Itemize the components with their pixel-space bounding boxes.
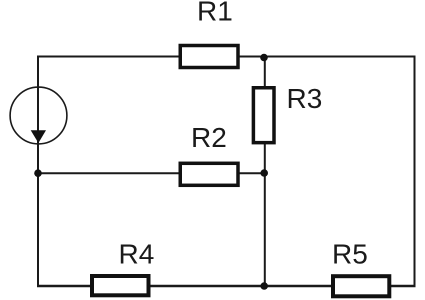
wire top: node A rail <box>37 56 416 58</box>
wire right: top rail to bottom rail <box>414 56 416 288</box>
junction node: bottom rail/middle <box>260 282 268 290</box>
wire middle vertical: through R3 down to bottom rail <box>264 58 266 287</box>
wire left: through current source <box>37 56 39 288</box>
resistor R3 <box>253 88 274 143</box>
svg-text:R2: R2 <box>191 122 227 153</box>
svg-text:R4: R4 <box>119 238 155 269</box>
resistor R4 <box>92 276 149 295</box>
svg-text:R5: R5 <box>332 239 368 270</box>
junction node: left source/R2 <box>34 169 42 177</box>
wire middle horizontal: node B to R2 <box>38 172 265 174</box>
resistor R1 <box>180 46 238 68</box>
wire bottom: ground rail <box>37 285 416 287</box>
junction node: R2/R3 <box>260 169 268 177</box>
resistor R2 <box>180 163 238 185</box>
current source <box>10 87 67 144</box>
svg-text:R1: R1 <box>197 0 233 27</box>
junction node: top R1/R3 <box>260 54 268 62</box>
svg-text:R3: R3 <box>287 83 323 114</box>
resistor R5 <box>333 276 389 296</box>
